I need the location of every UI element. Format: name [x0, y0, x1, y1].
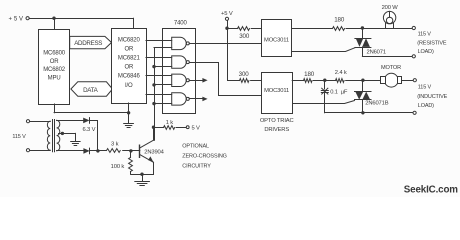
ground symbol (emitter) — [135, 174, 150, 185]
wire emitter — [153, 162, 155, 174]
svg-text:CIRCUITRY: CIRCUITRY — [182, 164, 211, 170]
wire R7 to emitter rail — [130, 172, 132, 175]
IC U5 MOC3011 box (lower) — [262, 73, 293, 114]
terminal 115V resistive bottom — [412, 55, 415, 58]
svg-text:115 V: 115 V — [418, 31, 432, 37]
resistor R1 300 — [238, 27, 250, 31]
wire gate 4 input A (from I/O) — [146, 94, 172, 96]
wire +5V rail top — [29, 18, 133, 20]
arrow gate4 output — [202, 97, 207, 102]
wire gate 2 input A (from I/O) — [146, 57, 172, 59]
bus arrow DATA (bidirectional) — [71, 82, 113, 96]
NAND gate U3d — [172, 93, 190, 105]
terminal mains bottom — [26, 149, 29, 152]
svg-text:MPU: MPU — [48, 76, 61, 82]
wire gate 3 input A (from I/O) — [146, 75, 172, 77]
wire R5 to motor node — [346, 80, 381, 82]
svg-text:MC6846: MC6846 — [118, 74, 141, 80]
wire MOC2 to triac2 gate — [293, 101, 355, 104]
svg-text:MC6820: MC6820 — [118, 37, 141, 43]
lamp 200W — [383, 11, 395, 28]
IC U3 7400 box — [163, 29, 196, 114]
label MOC3011 (upper) — [264, 37, 289, 43]
svg-text:+ 5 V: + 5 V — [8, 17, 23, 23]
svg-text:OPTIONAL: OPTIONAL — [182, 143, 209, 149]
label 2N6071B — [365, 101, 388, 107]
svg-text:LOAD): LOAD) — [418, 49, 434, 55]
svg-text:6.3 V: 6.3 V — [83, 127, 96, 133]
svg-text:OR: OR — [50, 59, 60, 65]
svg-text:180: 180 — [334, 17, 345, 24]
label 115 V (resistive) — [418, 31, 432, 37]
svg-text:115 V: 115 V — [12, 134, 26, 140]
svg-text:+5 V: +5 V — [221, 11, 233, 17]
wire triac2 MT1 lead — [362, 100, 364, 113]
terminal 115V resistive top — [412, 26, 415, 29]
label MC6802 — [43, 67, 66, 73]
watermark SeekIC.com — [404, 184, 458, 195]
label MOC3011 (lower) — [264, 88, 289, 94]
label 3 k — [111, 141, 119, 147]
bus arrow ADDRESS — [70, 36, 112, 48]
label 200 W — [382, 5, 399, 11]
wire R1 to MOC1 — [251, 28, 261, 30]
label OR (MPU) — [50, 59, 60, 65]
svg-text:2.4 k: 2.4 k — [335, 70, 347, 76]
label MC6821 — [118, 55, 141, 61]
label 300 (R1) — [239, 33, 250, 40]
label 115 V (inductive) — [418, 85, 432, 91]
svg-text:7400: 7400 — [174, 21, 188, 27]
wire R4 to cap node — [313, 80, 324, 82]
label DATA — [83, 87, 99, 94]
label I/O — [125, 83, 133, 89]
label 2.4 k — [335, 70, 347, 76]
label OPTO TRIAC — [260, 118, 294, 124]
svg-text:DATA: DATA — [83, 87, 99, 94]
svg-text:OR: OR — [124, 46, 134, 52]
junction emitter ground — [140, 173, 143, 176]
wire +5V stub to MPU — [54, 18, 56, 30]
label OPTIONAL — [182, 143, 209, 149]
resistor R7 100k — [129, 158, 133, 172]
svg-text:0.1 µF: 0.1 µF — [330, 89, 348, 95]
wire gate 1 input B (zero-crossing) — [154, 47, 172, 49]
svg-text:300: 300 — [239, 71, 250, 78]
label 7400 — [174, 21, 188, 27]
svg-text:ZERO-CROSSING: ZERO-CROSSING — [182, 154, 227, 160]
label 115 V (mains) — [12, 134, 26, 140]
resistor R5 2.4k — [336, 79, 345, 83]
transformer T1 secondary coil — [57, 120, 60, 150]
wire R6 to base node — [123, 150, 140, 152]
IC U1 MC6800 MPU box — [39, 30, 70, 105]
label 300 (R2) — [239, 71, 250, 78]
svg-text:5 V: 5 V — [192, 126, 201, 132]
wire collector — [153, 127, 155, 140]
wire secondary top lead — [57, 120, 84, 122]
IC U2 MC6820 I/O box — [112, 29, 147, 104]
junction collector 1k — [152, 126, 155, 129]
svg-text:2N6071: 2N6071 — [367, 49, 386, 55]
svg-text:ADDRESS: ADDRESS — [74, 40, 102, 47]
label MC6820 — [118, 37, 141, 43]
terminal 5V pullup — [186, 126, 189, 129]
junction ground bus — [127, 111, 130, 114]
svg-text:MC6800: MC6800 — [43, 51, 66, 57]
triac Q2 2N6071B — [355, 92, 372, 100]
label 6.3 V — [83, 127, 96, 133]
transistor Q3 2N3904 — [140, 140, 154, 162]
wire mains top lead — [30, 121, 51, 123]
svg-text:OR: OR — [124, 65, 134, 71]
NAND gate U3c — [172, 74, 190, 86]
svg-text:LOAD): LOAD) — [418, 103, 434, 109]
arrow gate3 output — [202, 78, 207, 83]
diode D1 — [83, 118, 89, 124]
terminal +5V (right) — [225, 17, 228, 20]
junction +5V right — [225, 27, 228, 30]
label 2N6071 — [367, 49, 386, 55]
wire rail resistive bottom — [362, 56, 412, 58]
label OR (IO-1) — [124, 46, 134, 52]
terminal mains top — [26, 120, 29, 123]
wire MOC2 to R4 — [292, 80, 304, 82]
wire motor to terminal — [402, 80, 413, 82]
label (RESISTIVE — [417, 41, 447, 47]
wire triac1 MT1 lead — [362, 47, 364, 56]
label 0.1 uF — [330, 89, 348, 95]
wire gate 3 input B (zero-crossing) — [154, 84, 172, 86]
wire zero-crossing vertical — [154, 48, 156, 141]
label 100 k — [111, 164, 125, 170]
wire secondary bottom lead — [57, 150, 84, 152]
label MOTOR — [381, 65, 401, 71]
terminal +5V (left) — [26, 17, 29, 20]
diode D2 — [83, 148, 89, 154]
label MPU — [48, 76, 61, 82]
label ADDRESS — [74, 40, 102, 47]
svg-text:MOC3011: MOC3011 — [264, 88, 289, 94]
label 180 (R3) — [334, 17, 345, 24]
svg-text:100 k: 100 k — [111, 164, 125, 170]
wire cap node to R5 — [325, 80, 336, 82]
NAND gate U3b — [172, 56, 190, 68]
terminal 115V inductive top — [413, 79, 416, 82]
wire gate4 output — [189, 98, 203, 100]
svg-text:MC6802: MC6802 — [43, 67, 66, 73]
wire gate 2 input B (zero-crossing) — [154, 66, 172, 68]
wire +5V down to R2 — [228, 29, 240, 81]
wire collector to R8 — [154, 127, 164, 129]
junction triac1 top — [361, 26, 364, 29]
label CIRCUITRY — [182, 164, 211, 170]
label +5 V (right) — [221, 11, 233, 17]
svg-text:200 W: 200 W — [382, 5, 399, 11]
wire gate 1 input A (from I/O) — [146, 40, 172, 42]
node +5V supply label (left) — [8, 17, 23, 23]
wire D1 to junction — [90, 121, 98, 151]
label MC6800 — [43, 51, 66, 57]
ground symbol (center tap) — [71, 133, 80, 145]
motor M1 — [381, 73, 402, 87]
wire R8 to 5V — [176, 127, 186, 129]
junction gate2 input B — [152, 65, 155, 68]
svg-text:1 k: 1 k — [166, 120, 174, 126]
svg-text:2N3904: 2N3904 — [144, 149, 164, 155]
wire base node to R7 — [130, 151, 132, 158]
junction cap top — [323, 79, 326, 82]
svg-text:MOC3011: MOC3011 — [264, 37, 289, 43]
wire mains bottom lead — [30, 150, 51, 152]
svg-text:2N6071B: 2N6071B — [365, 101, 388, 107]
IC U4 MOC3011 box (upper) — [262, 20, 292, 57]
label (INDUCTIVE — [417, 94, 447, 100]
junction base node — [129, 149, 132, 152]
terminal 115V inductive bottom — [413, 111, 416, 114]
resistor R6 3k — [107, 149, 121, 153]
label ZERO-CROSSING — [182, 154, 227, 160]
svg-text:SeekIC.com: SeekIC.com — [404, 184, 458, 195]
svg-text:OPTO TRIAC: OPTO TRIAC — [260, 118, 294, 124]
wire MPU ground stub — [54, 104, 56, 113]
wire emitter rail — [131, 174, 154, 176]
wire to R1 — [227, 28, 238, 30]
resistor R4 180 — [304, 79, 313, 83]
wire gate 4 input B (zero-crossing) — [154, 103, 172, 105]
wire +5V stub into I/O box top — [133, 18, 135, 28]
junction triac2 bottom — [361, 111, 364, 114]
label 2N3904 — [144, 149, 164, 155]
svg-text:180: 180 — [304, 71, 315, 78]
resistor R3 180 — [333, 27, 345, 31]
svg-text:MOTOR: MOTOR — [381, 65, 401, 71]
resistor R8 1k — [164, 126, 175, 130]
junction center tap — [61, 132, 64, 135]
label OR (IO-2) — [124, 65, 134, 71]
wire triac1 MT2 lead — [362, 28, 364, 38]
wire secondary center tap — [59, 133, 76, 135]
wire I/O ground stub — [128, 103, 130, 113]
svg-text:(INDUCTIVE: (INDUCTIVE — [417, 94, 447, 100]
triac Q1 2N6071 — [355, 38, 371, 47]
svg-text:DRIVERS: DRIVERS — [264, 127, 289, 133]
capacitor C1 0.1uF — [321, 80, 328, 113]
wire +5V right stub — [227, 20, 229, 28]
label 5 V (pullup) — [192, 126, 201, 132]
wire rail inductive bottom — [325, 112, 413, 114]
junction triac2 top — [361, 79, 364, 82]
junction gate3 input B — [152, 83, 155, 86]
label 1 k — [166, 120, 174, 126]
resistor R2 300 — [240, 79, 249, 83]
wire gate2 output to MOC2 — [190, 63, 262, 96]
svg-text:300: 300 — [239, 33, 250, 40]
wire ground bus — [54, 112, 129, 114]
wire MOC1 to triac1 gate — [292, 48, 356, 52]
svg-text:115 V: 115 V — [418, 85, 432, 91]
svg-text:MC6821: MC6821 — [118, 55, 141, 61]
label MC6846 — [118, 74, 141, 80]
svg-text:3 k: 3 k — [111, 141, 119, 147]
junction rectifier node — [96, 149, 99, 152]
svg-text:I/O: I/O — [125, 83, 133, 89]
wire gate1 output to MOC1 — [189, 43, 261, 45]
wire R2 to MOC2 — [251, 80, 261, 82]
label 180 (R4) — [304, 71, 315, 78]
label LOAD) (inductive) — [418, 103, 434, 109]
wire R3 to lamp node — [346, 28, 362, 30]
ground symbol (logic) — [124, 113, 134, 128]
label DRIVERS — [264, 127, 289, 133]
transformer T1 primary coil — [47, 121, 50, 150]
wire triac2 MT2 lead — [362, 80, 364, 91]
wire rectifier to R6 — [90, 150, 106, 152]
wire lamp rail — [362, 28, 412, 30]
wire MOC1 to R3 — [292, 28, 332, 30]
wire gate3 output — [189, 80, 203, 82]
junction gate4 input B — [152, 102, 155, 105]
svg-text:(RESISTIVE: (RESISTIVE — [417, 41, 447, 47]
junction +5V to MPU — [52, 17, 55, 20]
label LOAD) (resistive) — [418, 49, 434, 55]
transformer T1 core — [53, 120, 55, 152]
NAND gate U3a — [172, 37, 190, 49]
